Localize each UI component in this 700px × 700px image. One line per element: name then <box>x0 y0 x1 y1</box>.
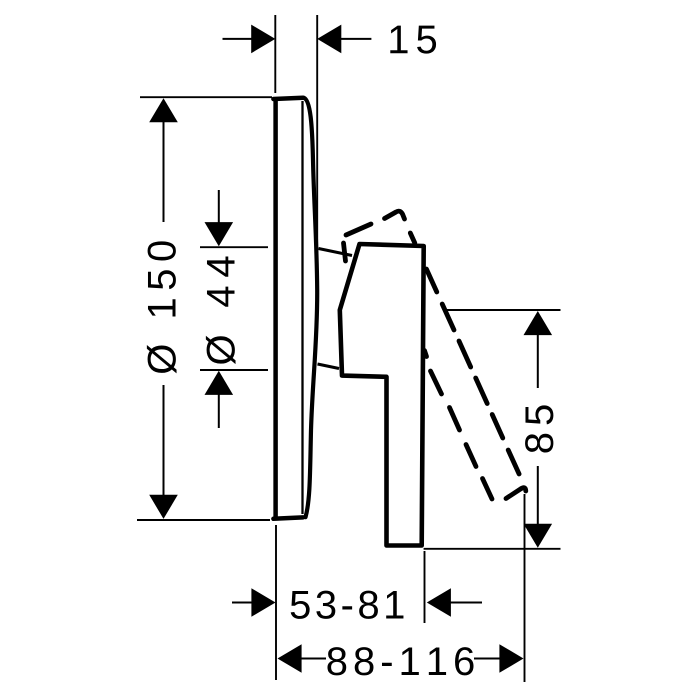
dim 15: left leader line <box>223 38 263 40</box>
dim 88-116: left line segment <box>301 658 326 660</box>
dim Ø150: bottom extension line <box>137 519 270 521</box>
dim Ø44: label <box>206 257 236 365</box>
handle dashed position: left edge dashes <box>425 351 427 357</box>
dim Ø150: bottom arrow <box>149 495 178 519</box>
dim Ø44: lower leader line <box>218 394 220 428</box>
escutcheon plate left edge (wall face) <box>273 98 278 519</box>
dim 53-81: left leader line <box>232 602 262 604</box>
dim 53-81: right leader line <box>450 602 482 604</box>
dim 88-116: right line segment <box>474 658 500 660</box>
plate top edge <box>273 98 303 99</box>
dim 15: extension line left <box>274 15 276 93</box>
plate right curved face <box>304 98 317 517</box>
dim Ø150: top arrow <box>149 98 178 122</box>
dim Ø44: bottom arrow (pointing up) <box>205 371 234 395</box>
handle dashed position: left corner tick near sleeve <box>344 243 346 261</box>
dim 15: right arrow <box>317 25 341 54</box>
handle dashed position: rotated top corner dash <box>385 211 405 219</box>
dim Ø150: top extension line <box>140 96 272 98</box>
plate front face inner line <box>301 101 303 514</box>
dim 88-116: right arrow (pointing right) <box>499 644 523 673</box>
handle dashed position: rotated top edge dash 1 <box>346 224 371 235</box>
dim Ø150: line lower segment <box>163 385 165 495</box>
dim 15: left arrow <box>251 25 275 54</box>
plate bottom edge <box>273 517 303 518</box>
dim 15: label <box>390 26 436 54</box>
dim 15: extension line right <box>316 15 318 268</box>
dim 85: lower line segment <box>537 466 539 524</box>
valve sleeve bottom line <box>318 364 340 369</box>
dim 85: top arrow (pointing up) <box>524 311 553 335</box>
dim Ø44: top arrow (pointing down) <box>205 222 234 246</box>
dim 53-81: right arrow (pointing left) <box>427 588 451 617</box>
dim 88-116: extension line from dashed lever end <box>524 494 526 682</box>
dim 53-81: extension line from plate <box>275 525 277 680</box>
lever handle solid outline <box>340 244 424 546</box>
dim 53-81: label <box>291 591 404 619</box>
dim Ø44: upper leader line <box>218 190 220 226</box>
dim 88-116: left arrow (pointing left) <box>278 644 302 673</box>
dim 85: label <box>525 405 553 452</box>
handle dashed position: tip dash with corner <box>506 488 526 499</box>
dim 53-81: left arrow (pointing right) <box>251 588 275 617</box>
handle dashed position: right edge dashes <box>410 233 415 243</box>
dim Ø44: top extension line <box>200 246 268 248</box>
dim 88-116: label <box>327 647 473 675</box>
dim 85: top extension line <box>444 309 560 311</box>
dim 85: upper line segment <box>537 334 539 388</box>
valve sleeve top line <box>319 249 353 256</box>
dim 15: right leader line <box>331 38 371 40</box>
dim Ø150: line upper segment <box>163 122 165 222</box>
dim Ø44: bottom extension line <box>200 369 268 371</box>
dim 85: bottom extension line <box>424 548 561 550</box>
dim 53-81: extension line from lever end <box>424 551 426 623</box>
dim 85: bottom arrow (pointing down) <box>524 524 553 548</box>
dim Ø150: label <box>147 241 177 373</box>
